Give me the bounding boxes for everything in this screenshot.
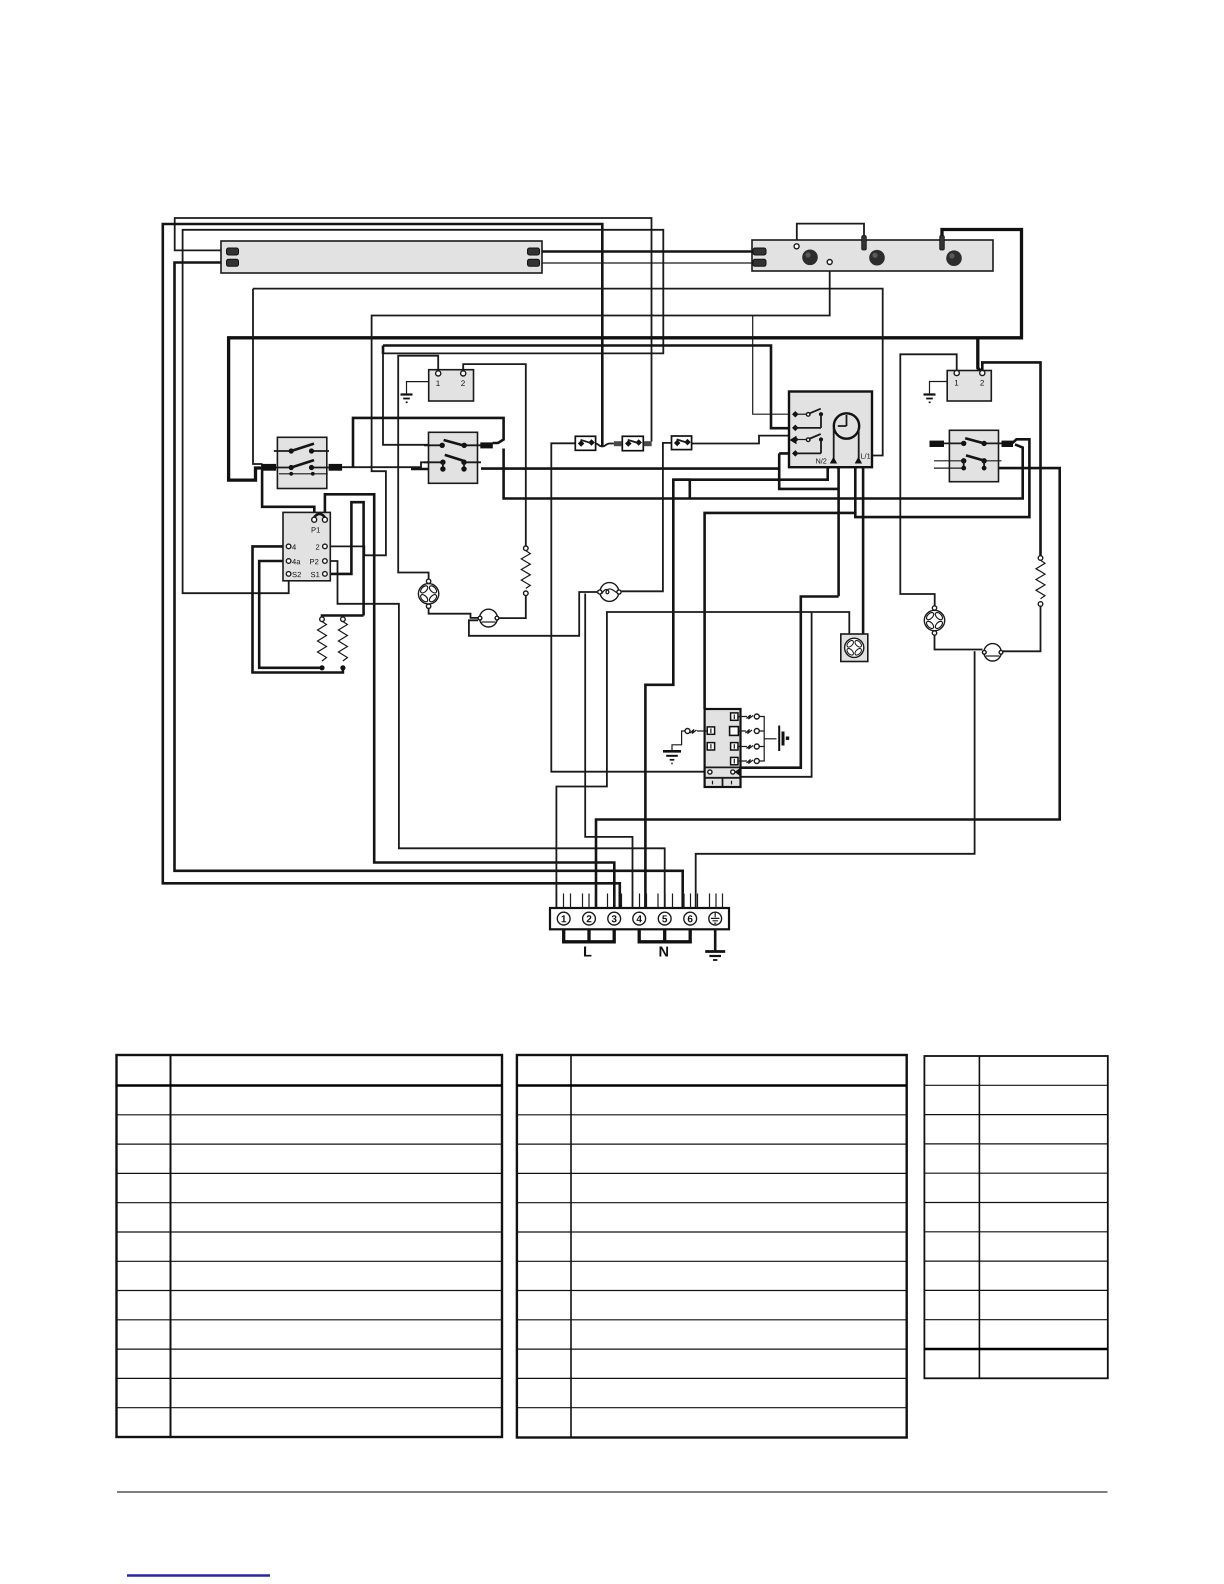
small switch sw1 — [575, 436, 595, 450]
igniter bottom terminals — [708, 770, 712, 774]
regulator pin P2 — [323, 559, 328, 564]
timer clock — [834, 413, 859, 438]
TABLES — [117, 1055, 1108, 1438]
earth lead and ground — [714, 929, 717, 951]
wire: L collector bus y=817 from right switch row3 — [596, 468, 1060, 908]
terminal 3 — [608, 912, 621, 925]
thermostat2 pin 2 — [980, 370, 985, 375]
oven fan in box — [841, 634, 868, 662]
legend table 2 — [517, 1055, 907, 1438]
timer switch 2 — [795, 439, 808, 441]
bridge N — [639, 929, 690, 942]
wire: timer L/1 left foot down to igniter top — [705, 439, 1030, 709]
wire: grill bar right terminals to lamp bar left terminals (thin row) — [540, 262, 754, 264]
footer rule — [117, 1491, 1108, 1493]
lamp bar pin 1 — [862, 236, 867, 251]
sw2 right connector — [644, 441, 652, 446]
wire: regulator pin 4 to browning resistor right — [253, 546, 343, 672]
wire: regulator P1 pin 1 feed from left switch connector — [262, 471, 314, 518]
wire: grill bar right terminals to lamp bar left terminals (thick row) — [539, 250, 754, 253]
terminal 1 — [557, 912, 570, 925]
browning resistor left — [320, 617, 325, 622]
timer box — [789, 392, 872, 468]
wire W2: main thick feed from lamp-bar pin down right side y=337.8 bus to left switch connector — [229, 230, 1022, 481]
igniter output squares right column — [731, 713, 738, 720]
terminal earth — [709, 912, 722, 925]
grill bar terminal bottom-left — [227, 259, 239, 266]
thermostat2 pin 1 — [954, 370, 959, 375]
SW-R right connector — [1002, 441, 1014, 447]
wire: thermostat2 pin2 to grill resistor top — [982, 362, 1040, 555]
thermostat box 2 — [947, 371, 991, 402]
lamp bar bulb 3 — [946, 250, 962, 266]
wire: selector drop from y=612 to terminal 1 — [556, 612, 849, 908]
wire: regulator pin 4a to browning resistor left — [259, 561, 320, 668]
wire bus A: top thin bus y=218 from grill bar upper-left terminal down to switch connector — [175, 218, 652, 442]
legend table 1 — [117, 1055, 503, 1437]
timer motor legs — [834, 428, 859, 459]
wire: left switch output to middle switch row2 input — [342, 462, 441, 467]
svg-text:1: 1 — [954, 379, 959, 388]
thermostat1 pin 2 — [461, 371, 466, 376]
ground symbol left of igniter — [663, 750, 681, 753]
svg-text:S2: S2 — [292, 570, 301, 579]
regulator pin 4 — [286, 544, 291, 549]
svg-text:L/1: L/1 — [860, 452, 870, 461]
motor right (M2) — [984, 644, 1001, 661]
chassis ground symbol right of igniter — [778, 726, 780, 752]
svg-text:N/2: N/2 — [815, 457, 826, 466]
svg-text:S1: S1 — [310, 570, 319, 579]
lamp bar bulb 2 — [869, 250, 885, 266]
wire: regulator P2 drop to terminal 4 — [328, 561, 665, 908]
thermostat1 pin 1 — [436, 371, 441, 376]
wire: small switch sw1 feed and drop to igniter left pin — [551, 443, 707, 771]
wire W4: oven lamp-bar node y=315.5 to energy regulator pin 2 — [328, 264, 830, 555]
ground symbol at thermostat2 — [930, 382, 948, 395]
igniter input squares left column — [707, 727, 714, 734]
svg-text:P1: P1 — [311, 526, 320, 535]
left switch box SW-L — [277, 437, 326, 488]
timer switch 1 — [795, 413, 808, 415]
SW-R left connector — [930, 441, 945, 447]
SW-L left connector — [261, 464, 276, 471]
sw1-sw2 connector — [614, 441, 622, 446]
wire: timer L/1 right foot to right switch hook riser — [858, 463, 863, 635]
wire: oven thermostat1 pin2 down to motor resistor top — [463, 364, 526, 546]
wire W1: lamp-bar pin to indicator circle — [797, 224, 864, 244]
svg-text:2: 2 — [315, 543, 319, 552]
wire bus Y288: feed bus y=288.6 from left switch connector to timer L/1 — [253, 289, 883, 464]
svg-text:P2: P2 — [309, 557, 318, 566]
spark gap left — [685, 729, 690, 734]
grill bar terminal bottom-right — [528, 259, 540, 266]
svg-text:N: N — [658, 945, 669, 961]
legend table 3 — [924, 1056, 1107, 1378]
thermostat box 1 — [429, 370, 474, 401]
regulator pin 2 — [323, 544, 328, 549]
middle switch box SW-M — [429, 432, 478, 483]
wire: thermostat2 pin1 to round fan top (right) — [900, 354, 956, 605]
terminal 6 — [684, 912, 697, 925]
wire: sw1 to sw2 hook link — [596, 444, 614, 447]
wire: middle switch row1 hook up-bus y=417.9 and drop to row2 node — [353, 418, 504, 467]
terminal stubs above block — [557, 894, 723, 909]
svg-text:L: L — [583, 945, 592, 961]
lamp bar bulb 1 — [802, 249, 818, 265]
energy regulator box — [283, 512, 330, 580]
wire: sw3 left drop to oven lamp right terminal — [622, 443, 672, 591]
svg-text:4: 4 — [292, 543, 296, 552]
svg-text:4: 4 — [636, 914, 642, 925]
wire: sw3 right to timer plug wedge — [692, 436, 788, 444]
bridge L — [564, 929, 615, 942]
lamp bar contact circle b — [827, 260, 832, 265]
svg-text:2: 2 — [586, 914, 592, 925]
grill resistor (right) — [1038, 556, 1043, 561]
round fan (right) — [924, 610, 944, 630]
FOOTER — [117, 1492, 1108, 1576]
grill bar terminal top-left — [227, 248, 239, 255]
terminal strip block — [550, 908, 729, 929]
wire: regulator S1 to resistor top bus — [322, 502, 364, 617]
svg-text:2: 2 — [980, 379, 985, 388]
wire: cooling fan bottom to left motor — [429, 608, 478, 618]
spark igniter box — [705, 709, 741, 787]
wire: oven thermostat1 pin1 to cooling fan top — [398, 356, 438, 579]
lamp bar terminal left-2 — [753, 259, 766, 266]
wire: middle switch row2/row3 left stubs — [411, 468, 441, 471]
svg-text:4a: 4a — [292, 557, 301, 566]
wire: timer N/2 right foot to N collector bus y=790.5 — [779, 453, 838, 596]
wire W2 branch: drop to oven thermostat pin 2 — [978, 338, 982, 372]
wire: right motor branch down to terminal 6 — [696, 651, 975, 908]
grill element bar (top left) — [221, 241, 542, 273]
wire: timer N/2 foot jog to N bus — [673, 480, 690, 499]
spark gaps right — [738, 714, 777, 764]
timer plug wedge — [790, 436, 797, 445]
wire: right fan bottom to right motor — [935, 636, 983, 650]
wire bus B: thick bus y=224 feeding small switch sw1 riser and left drop to terminal 5 — [163, 224, 620, 908]
motor resistor (middle) — [524, 546, 529, 551]
terminal 5 — [658, 912, 671, 925]
igniter bottom dividers — [705, 767, 741, 787]
wire: middle switch row3 output to timer contact 4 — [481, 453, 794, 468]
wire bus C: thin bus y=229.8 linking regulator S2 drop and selector feed — [183, 230, 664, 593]
ground symbol at thermostat1 — [407, 382, 429, 395]
terminal 2 — [583, 912, 596, 925]
wire: igniter output thick runs to right — [741, 597, 839, 768]
wire: N bus y=496.3 between middle and right switch hooks — [504, 445, 1023, 499]
SW-L right connector — [329, 464, 343, 471]
wire: oven lamp left to left motor node — [469, 592, 599, 636]
footer link underline — [127, 1574, 270, 1576]
lamp bar contact circle a — [794, 244, 799, 249]
cooling fan (left) — [418, 584, 438, 604]
wire: regulator P1 pin 2 riser to terminal 3 drop — [325, 494, 614, 908]
wire bus Y345: link bus y=345.5 from switch feed node to timer contact 2 — [383, 346, 794, 429]
wire: motor resistor bottom to left motor right terminal — [500, 596, 526, 619]
grill bar terminal top-right — [528, 248, 540, 255]
wire: oven lamp drop to terminal 4 — [585, 594, 632, 909]
svg-text:1: 1 — [561, 914, 567, 925]
timer terminal L/1 — [855, 457, 862, 464]
small switch sw3 — [672, 436, 692, 450]
wire: timer contact 1 thin riser to W4 bus — [753, 316, 794, 414]
lamp bar terminal left-1 — [753, 248, 766, 255]
motor left (M1) — [480, 609, 498, 627]
regulator pin S2 — [286, 572, 291, 577]
browning resistor right — [341, 617, 346, 622]
svg-text:3: 3 — [611, 914, 617, 925]
regulator pins P1 — [312, 517, 317, 522]
svg-text:2: 2 — [461, 379, 466, 388]
svg-text:1: 1 — [436, 379, 441, 388]
small switch sw2 — [622, 436, 643, 450]
right switch box SW-R — [949, 430, 998, 481]
lamp bar pin 2 — [940, 236, 945, 251]
terminal 4 — [633, 912, 646, 925]
wire: right motor to grill resistor bottom — [1003, 607, 1041, 652]
regulator pin S1 — [323, 572, 328, 577]
SW-M right connector — [480, 442, 493, 448]
oven lamp — [600, 583, 619, 602]
lamp bar (top right) — [752, 240, 993, 271]
svg-text:5: 5 — [662, 914, 668, 925]
regulator pin 4a — [286, 559, 291, 564]
wire: timer N/2 left foot to terminal 5 — [645, 463, 833, 909]
svg-text:6: 6 — [687, 914, 693, 925]
timer contact diamonds — [792, 411, 799, 418]
wire D: outer run from grill-bar lower terminal to terminal 6 — [175, 263, 683, 909]
timer terminal N/2 — [830, 457, 837, 464]
